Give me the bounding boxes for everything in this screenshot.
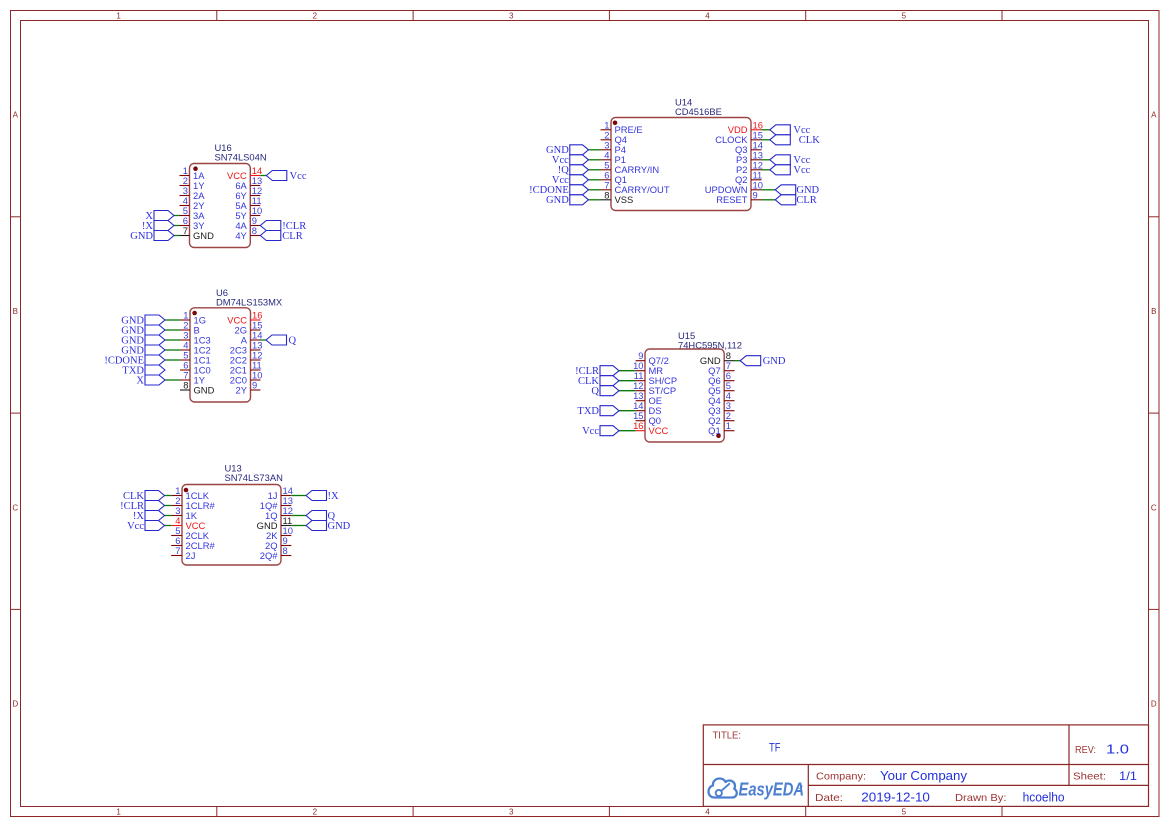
svg-text:DM74LS153MX: DM74LS153MX [216, 297, 283, 308]
svg-text:B: B [13, 307, 18, 316]
svg-text:GND: GND [328, 521, 351, 532]
svg-text:2: 2 [313, 807, 318, 816]
svg-text:CD4516BE: CD4516BE [675, 106, 722, 117]
svg-text:GND: GND [194, 384, 215, 395]
svg-text:X: X [136, 375, 144, 386]
svg-text:1/1: 1/1 [1119, 769, 1137, 783]
svg-text:2Y: 2Y [236, 384, 248, 395]
svg-text:8: 8 [183, 380, 188, 391]
svg-text:CLK: CLK [799, 135, 820, 146]
svg-text:Vcc: Vcc [290, 171, 307, 182]
svg-text:7: 7 [183, 225, 188, 236]
svg-text:8: 8 [604, 189, 609, 200]
svg-text:5: 5 [902, 807, 907, 816]
svg-text:EasyEDA: EasyEDA [739, 780, 805, 800]
svg-text:Vcc: Vcc [127, 521, 144, 532]
svg-text:A: A [13, 111, 19, 120]
svg-text:8: 8 [252, 225, 257, 236]
svg-text:C: C [1151, 503, 1157, 512]
svg-text:Your Company: Your Company [880, 768, 968, 783]
svg-text:VSS: VSS [615, 194, 634, 205]
svg-text:Q1: Q1 [708, 425, 721, 436]
svg-text:2J: 2J [186, 550, 196, 561]
svg-text:4: 4 [705, 807, 710, 816]
svg-text:GND: GND [546, 195, 569, 206]
svg-text:7: 7 [175, 545, 180, 556]
svg-text:4: 4 [705, 11, 710, 20]
svg-text:TF: TF [769, 741, 781, 755]
svg-text:!X: !X [328, 491, 339, 502]
svg-text:2019-12-10: 2019-12-10 [861, 790, 930, 805]
svg-text:D: D [1151, 700, 1157, 709]
svg-text:Company:: Company: [816, 772, 866, 783]
svg-text:CLR: CLR [282, 231, 302, 242]
svg-text:RESET: RESET [716, 194, 748, 205]
svg-text:16: 16 [633, 420, 643, 431]
svg-text:Q: Q [591, 386, 599, 397]
svg-text:TXD: TXD [577, 406, 599, 417]
svg-text:5: 5 [902, 11, 907, 20]
svg-text:REV:: REV: [1075, 745, 1096, 756]
svg-text:C: C [12, 503, 18, 512]
svg-text:hcoelho: hcoelho [1023, 791, 1065, 805]
svg-text:TITLE:: TITLE: [713, 731, 742, 742]
svg-text:GND: GND [193, 230, 214, 241]
svg-text:A: A [1151, 111, 1157, 120]
svg-text:9: 9 [753, 189, 758, 200]
svg-text:9: 9 [252, 380, 257, 391]
svg-text:1.0: 1.0 [1106, 742, 1129, 756]
svg-text:B: B [1151, 307, 1156, 316]
svg-text:1: 1 [726, 420, 731, 431]
svg-text:2: 2 [313, 11, 318, 20]
svg-text:3: 3 [509, 11, 514, 20]
svg-text:8: 8 [283, 545, 288, 556]
svg-text:VCC: VCC [649, 425, 669, 436]
svg-text:1: 1 [116, 11, 121, 20]
svg-text:GND: GND [763, 356, 786, 367]
svg-text:Q: Q [289, 335, 297, 346]
svg-text:3: 3 [509, 807, 514, 816]
svg-text:Date:: Date: [815, 793, 843, 804]
svg-text:SN74LS73AN: SN74LS73AN [225, 472, 283, 483]
svg-text:4Y: 4Y [235, 230, 247, 241]
svg-text:Drawn By:: Drawn By: [955, 793, 1007, 804]
svg-text:2Q#: 2Q# [260, 550, 279, 561]
svg-text:CLR: CLR [796, 195, 816, 206]
svg-text:Vcc: Vcc [793, 165, 810, 176]
svg-text:SN74LS04N: SN74LS04N [215, 152, 267, 163]
svg-text:D: D [12, 700, 18, 709]
svg-text:1: 1 [116, 807, 121, 816]
svg-text:Sheet:: Sheet: [1073, 771, 1106, 783]
svg-text:GND: GND [130, 231, 153, 242]
svg-text:Vcc: Vcc [582, 426, 599, 437]
